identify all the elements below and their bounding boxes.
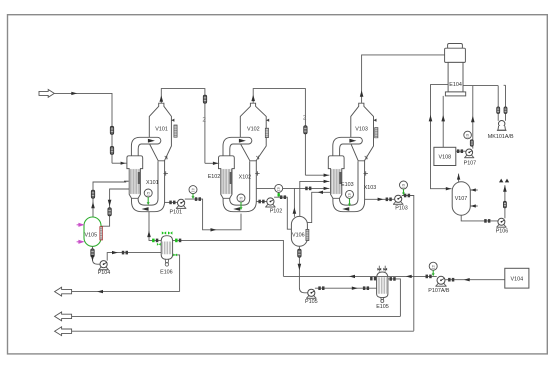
wire (161, 89, 205, 164)
wire arrow (148, 139, 155, 143)
wire arrow (446, 187, 451, 190)
valve pair (363, 286, 366, 290)
wire arrow (298, 264, 302, 271)
svg-text:PI: PI (147, 191, 150, 195)
valve bowtie (168, 231, 170, 234)
wire (497, 86, 499, 121)
vessel V106 (291, 216, 307, 246)
wire (470, 205, 478, 207)
heat exchanger E2 cone (219, 156, 235, 199)
nozzle tick (165, 156, 168, 160)
valve pair (258, 200, 261, 204)
instrument gauge (464, 131, 472, 139)
vessel V104 (505, 268, 529, 288)
wire arrow (471, 116, 475, 123)
svg-text:PI: PI (277, 187, 280, 191)
offpage connector AA (499, 179, 503, 183)
valve (108, 208, 111, 216)
pump P107A/B (435, 276, 446, 286)
valve (110, 126, 113, 134)
wire (132, 160, 165, 212)
wire (131, 137, 160, 158)
wire (185, 199, 241, 230)
wire arrow (342, 207, 349, 211)
instrument gauge (429, 262, 437, 270)
valve pair (390, 277, 393, 281)
svg-text:X102: X102 (239, 174, 252, 180)
level gauge V106 (306, 229, 309, 240)
wire arrow (318, 191, 323, 194)
valve pair (169, 201, 172, 205)
wire (72, 291, 180, 293)
wire (299, 246, 307, 292)
wire arrow (233, 207, 240, 211)
wire arrow (293, 207, 297, 214)
wire (253, 89, 305, 176)
valve (203, 95, 206, 103)
svg-text:PI: PI (348, 193, 351, 197)
wire arrow (471, 188, 476, 191)
wire (388, 279, 401, 317)
valve (298, 249, 301, 257)
instrument stem (192, 194, 194, 197)
svg-text:E104: E104 (449, 82, 462, 88)
valve pair (280, 195, 283, 199)
level gauge V105 (100, 227, 103, 240)
nozzle tick (364, 171, 368, 175)
valve (91, 249, 94, 257)
valve bowtie (157, 243, 159, 246)
heat exchanger E105 (377, 272, 388, 298)
wire (205, 162, 219, 164)
valve pair (386, 198, 389, 202)
wire arrow (239, 139, 246, 143)
wire arrow (441, 115, 445, 122)
svg-text:X103: X103 (364, 185, 377, 191)
wire (442, 96, 444, 147)
svg-text:V104: V104 (511, 277, 524, 283)
svg-text:P105: P105 (305, 299, 318, 305)
wire arrow (112, 251, 118, 254)
wire (315, 287, 377, 289)
svg-text:2: 2 (303, 114, 307, 121)
wire (256, 201, 267, 203)
svg-text:P101: P101 (170, 210, 183, 216)
wire (107, 253, 161, 261)
valve pair (152, 239, 155, 243)
vessel body (240, 103, 266, 161)
nozzle tick (124, 180, 129, 182)
wire (149, 212, 161, 241)
svg-text:P103: P103 (395, 206, 408, 212)
pump P107 (464, 149, 474, 158)
svg-text:V101: V101 (155, 127, 168, 133)
wire (307, 192, 330, 222)
nozzle tick (373, 119, 376, 122)
svg-text:V108: V108 (439, 155, 452, 161)
heat exchanger E3 cone (328, 156, 344, 199)
svg-text:E106: E106 (160, 269, 173, 275)
wire (223, 160, 256, 212)
svg-text:P104: P104 (98, 270, 111, 276)
pump P106 (496, 218, 506, 227)
wire (431, 85, 452, 189)
pump P101 (176, 199, 186, 208)
inlet arrow (78, 223, 84, 227)
pump MK101A/B (499, 121, 505, 127)
valve pair (484, 219, 487, 223)
wire (504, 185, 506, 218)
wire (463, 85, 498, 87)
instrument stem (432, 270, 434, 274)
wire (164, 201, 177, 203)
wire arrow (406, 275, 412, 278)
instrument stem (240, 202, 242, 208)
valve pair (175, 239, 178, 243)
wire (54, 92, 112, 94)
valve pair (318, 286, 321, 290)
instrument stem (403, 189, 405, 193)
wire arrow (503, 185, 507, 192)
valve (110, 146, 113, 154)
instrument gauge (189, 186, 197, 194)
wire (111, 93, 113, 163)
valve (504, 107, 507, 114)
heat exchanger E1 tubes (130, 169, 140, 194)
heat exchanger E1 baffle (138, 172, 141, 184)
wire (173, 255, 180, 292)
valve (503, 201, 506, 208)
wire (402, 196, 414, 331)
wire arrow (324, 174, 329, 177)
wire (505, 85, 507, 121)
pump P104 (98, 261, 108, 270)
instrument stem (147, 197, 149, 203)
wire arrow (324, 187, 329, 190)
nozzle tick (164, 171, 168, 175)
instrument stem (349, 198, 351, 204)
valve pair (426, 275, 429, 279)
valve pair (404, 194, 407, 198)
svg-text:E102: E102 (208, 174, 221, 180)
outlet arrow (55, 312, 72, 321)
svg-text:MK101A/B: MK101A/B (488, 134, 514, 140)
svg-text:V103: V103 (355, 127, 368, 133)
heat exchanger E1 cone (127, 156, 143, 199)
outlet arrow (55, 327, 72, 336)
svg-text:P102: P102 (270, 208, 283, 214)
vessel body (149, 103, 171, 161)
valve (497, 107, 500, 114)
wire arrow (121, 162, 126, 165)
wire arrow (349, 139, 356, 143)
valve pair (370, 277, 373, 281)
pump P102 (265, 198, 275, 207)
wire (470, 189, 478, 191)
wire arrow (251, 95, 255, 102)
wire (101, 189, 129, 226)
valve (378, 266, 380, 272)
valve (470, 140, 473, 146)
wire arrow (429, 115, 433, 122)
svg-text:X101: X101 (146, 180, 159, 186)
instrument gauge (400, 181, 408, 189)
wire (93, 182, 126, 217)
wire (456, 150, 466, 152)
nozzle tick (255, 171, 259, 175)
wire (72, 330, 414, 332)
outlet arrow (55, 287, 72, 296)
wire arrow (91, 202, 95, 209)
wire arrow (324, 180, 329, 183)
svg-text:P106: P106 (496, 229, 509, 235)
wire (472, 86, 474, 149)
svg-text:E103: E103 (341, 182, 354, 188)
feed inlet arrow (39, 90, 54, 98)
pump P105 (306, 289, 316, 298)
valve (91, 190, 94, 198)
vessel body (351, 103, 374, 161)
wire arrow (142, 207, 149, 211)
level gauge (265, 128, 268, 137)
svg-text:V105: V105 (85, 232, 98, 238)
nozzle tick (171, 119, 174, 122)
vessel V108 (434, 147, 456, 165)
wire arrow (213, 162, 218, 165)
valve pair (122, 251, 125, 255)
valve bowtie (162, 231, 164, 234)
heat exchanger E106 (161, 236, 172, 260)
wire (72, 315, 401, 317)
svg-text:2: 2 (202, 117, 206, 124)
wire arrow (464, 278, 470, 281)
heat exchanger E3 tubes (331, 169, 341, 194)
inlet arrow (78, 240, 84, 244)
valve (304, 126, 307, 134)
wire (364, 198, 394, 200)
wire (93, 246, 101, 264)
wire arrow (71, 92, 77, 95)
wire (283, 275, 436, 277)
wire (458, 174, 460, 182)
heat exchanger E3 baffle (339, 172, 342, 184)
vessel V105 (84, 217, 101, 246)
wire (333, 160, 365, 212)
wire (256, 187, 329, 189)
svg-text:V107: V107 (455, 196, 468, 202)
level gauge (174, 125, 177, 137)
svg-text:V102: V102 (247, 127, 260, 133)
svg-text:PI: PI (192, 188, 195, 192)
svg-text:PI: PI (240, 196, 243, 200)
nozzle tick (504, 84, 506, 86)
valve pair (448, 278, 451, 282)
svg-text:P107A/B: P107A/B (428, 288, 450, 294)
svg-text:E105: E105 (376, 304, 389, 310)
wire (278, 192, 280, 196)
instrument gauge (275, 184, 283, 192)
wire (461, 215, 498, 221)
wire (223, 137, 252, 158)
svg-text:PI: PI (466, 133, 469, 137)
wire (293, 188, 295, 216)
valve (384, 266, 386, 272)
instrument gauge (144, 189, 152, 197)
valve pair (195, 197, 198, 201)
svg-text:P107: P107 (464, 160, 477, 166)
wire arrow (160, 95, 164, 102)
heat exchanger E2 tubes (221, 169, 231, 194)
vessel E104 (448, 44, 463, 49)
wire (305, 174, 329, 176)
wire arrow (457, 174, 460, 180)
nozzle tick (365, 156, 368, 160)
wire (333, 137, 363, 158)
wire arrow (360, 90, 364, 97)
wire (274, 197, 291, 229)
svg-text:PI: PI (432, 264, 435, 268)
wire arrow (211, 228, 217, 231)
nozzle tick (266, 119, 269, 122)
svg-text:PI: PI (402, 183, 405, 187)
wire (445, 279, 505, 281)
valve pair (457, 149, 460, 153)
svg-text:V106: V106 (292, 233, 305, 239)
wire arrow (378, 198, 384, 201)
level gauge (375, 128, 378, 138)
heat exchanger E2 baffle (229, 172, 232, 184)
wire arrow (352, 287, 358, 290)
wire arrow (108, 200, 112, 207)
valve bowtie (173, 253, 175, 256)
instrument gauge (237, 194, 245, 202)
nozzle tick (256, 156, 259, 160)
wire arrow (91, 255, 95, 262)
valve (278, 193, 280, 196)
wire (300, 181, 330, 216)
wire (173, 240, 284, 276)
wire arrow (147, 231, 151, 238)
wire arrow (349, 275, 355, 278)
valve pair (305, 187, 308, 191)
pump P103 (393, 195, 403, 204)
wire arrow (97, 290, 103, 293)
wire (362, 55, 445, 103)
wire (112, 162, 127, 164)
wire arrow (471, 204, 476, 207)
instrument gauge (346, 190, 354, 198)
vessel V107 (452, 182, 470, 215)
